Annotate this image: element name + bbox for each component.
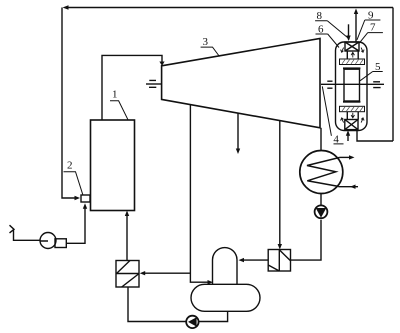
wire: heating water return with left arrow xyxy=(338,185,358,189)
generator bottom cooler T-bar (hatched) xyxy=(340,106,365,122)
generator gland right xyxy=(373,82,380,88)
wire: extraction 2 with down arrow xyxy=(236,113,240,154)
generator casing xyxy=(336,42,368,131)
shaft line turbine to generator xyxy=(321,83,384,85)
label 5 xyxy=(360,61,383,81)
wire: blower outlet up to air preheater box xyxy=(66,203,87,243)
deaerator dome xyxy=(213,248,238,285)
right HP heater (square with coil) xyxy=(268,250,290,272)
generator gland left xyxy=(327,81,332,88)
svg-text:2: 2 xyxy=(67,160,73,172)
label 4 leader xyxy=(322,86,343,145)
wire: main top return line with left arrowhead xyxy=(63,5,394,10)
wire: HP heater to deaerator dome with left arrow xyxy=(239,258,269,262)
drain pump (circle with down triangle) xyxy=(315,205,328,218)
turbine left shaft gland xyxy=(146,80,162,87)
wire: air inlet top with down arrow xyxy=(346,24,350,41)
label 6 xyxy=(316,24,340,48)
deaerator tank xyxy=(191,284,260,311)
wire: extraction 1 to deaerator with branch to LP heater xyxy=(190,105,213,285)
generator rotor 5 xyxy=(343,67,360,102)
generator top cooler T-bar (hatched) xyxy=(340,48,365,65)
wire: hot air up to top line with up arrow xyxy=(354,9,358,43)
wire: left down pipe to air preheater xyxy=(62,8,80,201)
svg-text:7: 7 xyxy=(370,21,376,33)
wire: bottom right horizontal to generator xyxy=(357,130,393,142)
label 1 xyxy=(110,89,128,120)
wire: branch to left LP heater with left arrow xyxy=(140,271,191,275)
feed pump (circle with left triangle) xyxy=(186,316,198,328)
label 8 xyxy=(315,10,350,39)
heater (heat exchanger circle with coil) xyxy=(300,151,343,194)
turbine 3 xyxy=(162,39,320,128)
generator top fan (X-box) xyxy=(345,42,359,51)
blower fan xyxy=(40,233,66,249)
wire: main steam line boiler to turbine with down arrow xyxy=(102,55,165,120)
wire: right side down pipe xyxy=(392,8,394,142)
boiler 1 xyxy=(91,120,135,211)
svg-text:1: 1 xyxy=(112,89,118,101)
svg-text:3: 3 xyxy=(203,36,209,48)
generator bottom fan (X-box) xyxy=(345,120,358,130)
label 9 xyxy=(357,9,380,40)
wire: turbine exhaust down to heater xyxy=(320,128,322,151)
wire: feedwater into boiler bottom with up arrow xyxy=(125,211,129,261)
wire: tank outlet down to feed pump xyxy=(198,311,228,321)
left LP heater (square with coil) xyxy=(116,261,139,288)
label 3 xyxy=(201,36,220,57)
wire: pump down and left to HP heater xyxy=(291,220,322,260)
wire: heater down to drain pump xyxy=(320,194,322,206)
label 2 xyxy=(64,160,84,196)
wire: fuel inlet with chevron xyxy=(10,225,49,241)
label 7 xyxy=(359,21,383,43)
wire: feed pump to LP heater xyxy=(128,287,186,322)
wire: extraction 3 to HP heater with down arrow xyxy=(278,121,282,250)
wire: heating water out with right arrow xyxy=(340,155,355,159)
box 2 air preheater xyxy=(81,195,90,202)
wire: air stub with up arrow into generator bottom xyxy=(346,130,350,141)
